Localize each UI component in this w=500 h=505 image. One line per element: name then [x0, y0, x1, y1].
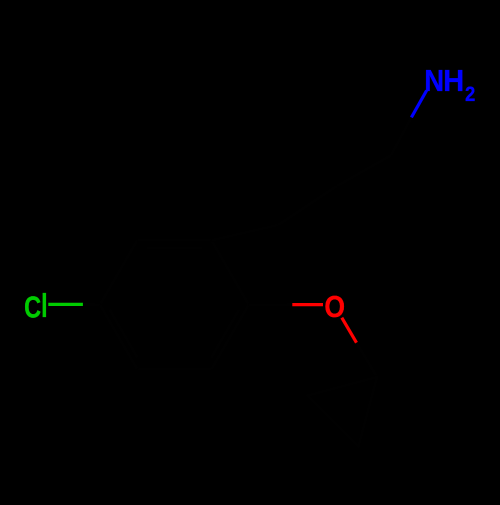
chain bond ring-C1: [212, 225, 279, 240]
chain bond C1-C2: [278, 186, 337, 225]
svg-text:H: H: [443, 64, 464, 98]
svg-text:O: O: [324, 290, 345, 324]
O-ring bond (red half): [292, 303, 323, 306]
inner double bond lower-right: [211, 310, 239, 358]
svg-text:N: N: [424, 64, 444, 99]
svg-text:C: C: [24, 289, 41, 324]
chlorine bond (green half): [48, 303, 83, 306]
ring edge TL-TR: [137, 239, 211, 242]
black half of C3-N bond: [391, 117, 411, 155]
svg-text:l: l: [41, 288, 48, 325]
ring edge BR-BL: [137, 368, 211, 371]
amine bond (blue half): [411, 91, 426, 118]
ring edge TR-R: [212, 240, 249, 304]
svg-text:2: 2: [465, 83, 475, 107]
cyclopropyl ring: [308, 377, 378, 447]
black half of O-ring bond: [249, 303, 293, 306]
black half of Cl bond: [83, 303, 100, 307]
ring edge R-BR: [212, 305, 249, 369]
black half of O-cyclopropyl bond: [357, 343, 378, 377]
ring edge BL-L: [100, 305, 137, 369]
inner double bond top: [147, 247, 203, 250]
inner double bond lower-left: [110, 310, 138, 358]
chain bond C2-C3: [337, 155, 391, 186]
O-cyclopropyl bond (red half): [342, 318, 357, 343]
ring edge L-TL: [100, 240, 137, 304]
benzene ring (carbon bonds, near-invisible): [83, 117, 412, 446]
